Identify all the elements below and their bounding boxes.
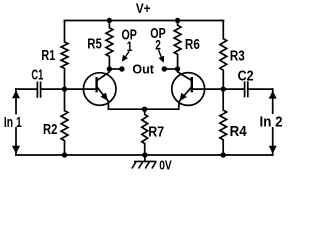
OP 1 label	[122, 26, 138, 54]
svg-text:C1: C1	[31, 66, 43, 83]
resistor R7	[142, 109, 148, 155]
svg-text:R1: R1	[41, 46, 55, 63]
node: R7 tap	[142, 107, 147, 112]
node: collector junction Q2/R6	[175, 66, 180, 71]
svg-text:Out: Out	[132, 62, 154, 76]
OP 1 pointer arrow	[122, 51, 130, 62]
port In 1 (double-headed arrow)	[12, 89, 20, 155]
svg-text:C2: C2	[238, 67, 254, 83]
node: base junction left	[62, 86, 67, 91]
svg-text:In 1: In 1	[4, 113, 22, 130]
node: R4 bottom junction	[221, 152, 226, 157]
port In 2 (double-headed arrow)	[269, 89, 277, 155]
svg-text:R6: R6	[185, 36, 200, 53]
transistor Q1 (left NPN)	[83, 69, 116, 109]
wire: V+ supply rail	[65, 20, 224, 22]
node: collector junction Q1/R5	[107, 66, 112, 71]
resistor R6	[174, 21, 181, 70]
node: OP 1 test point	[119, 66, 124, 71]
svg-text:In 2: In 2	[260, 114, 283, 131]
capacitor C2	[245, 82, 273, 96]
resistor R1	[61, 21, 68, 90]
wire: output stub 2	[164, 68, 177, 70]
node: OP 2 test point	[162, 66, 167, 71]
svg-text:R3: R3	[230, 47, 245, 64]
resistor R2	[61, 89, 68, 155]
resistor R5	[106, 21, 113, 70]
resistor R4	[220, 89, 227, 155]
node: R2 bottom junction	[62, 152, 67, 157]
svg-text:R2: R2	[43, 120, 57, 137]
node In 2 label	[261, 114, 282, 127]
wire: Q2 base to C2	[193, 88, 244, 90]
wire: emitter rail	[109, 108, 179, 110]
wire: output stub 1	[109, 68, 122, 70]
ground symbol	[132, 155, 157, 169]
node: rail dot R6	[175, 18, 180, 23]
OP 2 pointer arrow	[159, 50, 165, 63]
node: ground junction	[142, 152, 147, 157]
svg-text:1: 1	[127, 38, 133, 54]
node: base junction right	[221, 86, 226, 91]
transistor Q2 (right NPN)	[172, 69, 205, 109]
wire: 0V bottom rail	[16, 154, 273, 156]
svg-text:R5: R5	[87, 35, 102, 52]
resistor R3	[220, 21, 227, 90]
capacitor C1	[16, 82, 96, 97]
svg-text:R4: R4	[230, 123, 247, 140]
node: rail dot R5	[107, 18, 112, 23]
svg-text:V+: V+	[136, 1, 151, 16]
node In 1 label	[4, 115, 22, 128]
svg-text:0V: 0V	[159, 160, 172, 173]
OP 2 label	[150, 24, 166, 52]
svg-text:R7: R7	[148, 123, 164, 139]
